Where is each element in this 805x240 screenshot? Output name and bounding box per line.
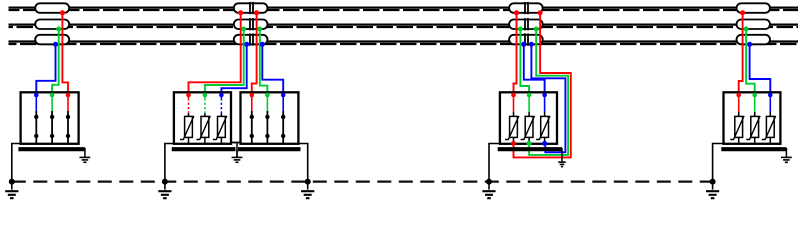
wire L1 red wrap to U4 bottom <box>514 13 571 158</box>
node tap L1 left cluster3 <box>514 10 519 15</box>
node tap L3 cluster4 <box>747 42 752 47</box>
ground mid cluster2 <box>232 150 243 162</box>
wire L1 red to U3 <box>252 13 257 95</box>
node tap L3 right cluster3 <box>529 42 534 47</box>
ground electrode 2 <box>158 182 171 199</box>
disconnect F4-L1 (pill) <box>737 3 771 13</box>
SPD U2 enclosure <box>174 92 231 144</box>
disconnect F3-L1 (double pill) <box>509 2 543 14</box>
bus L2 solid line <box>9 23 799 25</box>
wire L2 green wrap to U4 bottom <box>529 29 568 155</box>
wire U5 ground left <box>713 144 725 182</box>
U1 mounting bar <box>18 147 85 151</box>
varistor RV7 <box>730 93 744 144</box>
device U1 enclosure <box>21 92 79 144</box>
wire U4 ground right stub <box>561 148 563 162</box>
node tap L2 left cluster3 <box>518 27 523 32</box>
bus L3 dashed line <box>9 43 799 45</box>
node tap L2 right cluster2 <box>257 27 262 32</box>
wire L2 green to U5 <box>746 29 755 95</box>
wire L1 red to U2 <box>189 13 241 95</box>
node PE junction 2 <box>162 179 168 185</box>
U1 pole 1 <box>34 93 39 144</box>
node PE junction 4 <box>486 179 492 185</box>
wire U1 ground right stub <box>84 148 86 150</box>
node PE junction 3 <box>305 179 311 185</box>
wire L3 blue to U3 <box>262 44 283 95</box>
U5 mounting bar <box>721 147 786 151</box>
bus L2 dashed line <box>9 26 799 28</box>
disconnect F4-L3 (pill) <box>737 35 771 45</box>
varistor RV5 <box>521 93 535 146</box>
wire U2 ground left <box>165 144 175 182</box>
ground electrode 3 <box>301 182 314 199</box>
PE earth bus (dashed) <box>12 180 713 182</box>
wire U3 ground right <box>297 144 307 182</box>
node tap L1 cluster1 <box>60 10 65 15</box>
wire L1 red to U4 top <box>514 13 517 95</box>
varistor RV3 <box>213 93 227 144</box>
varistor RV1 <box>180 93 194 144</box>
ground electrode 5 <box>706 182 719 199</box>
disconnect F3-L2 (double pill) <box>509 18 543 30</box>
node tap L2 cluster4 <box>744 27 749 32</box>
disconnect F1-L3 (pill) <box>35 35 69 45</box>
U4 mounting bar <box>498 147 562 151</box>
wire L2 green to U4 top <box>520 29 529 95</box>
U3 pole 2 <box>265 93 270 144</box>
varistor RV2 <box>196 93 210 144</box>
node tap L3 left cluster3 <box>521 42 526 47</box>
wire L3 blue to U2 <box>221 44 246 95</box>
U1 pole 2 <box>50 93 55 144</box>
varistor RV9 <box>762 93 776 144</box>
U1 pole 3 <box>66 93 71 144</box>
wire L3 blue cluster1 <box>36 44 55 95</box>
SPD U4 enclosure <box>500 92 557 144</box>
ground U4 right <box>558 162 566 167</box>
wire L2 green to U2 <box>205 29 244 95</box>
node tap L3 cluster1 <box>53 42 58 47</box>
node tap L3 right cluster2 <box>260 42 265 47</box>
node tap L1 cluster4 <box>740 10 745 15</box>
bus L1 solid line <box>9 6 799 8</box>
node PE junction 1 <box>9 179 15 185</box>
wire U4 ground left <box>489 144 501 182</box>
node tap L2 left cluster2 <box>241 27 246 32</box>
wire L3 blue to U5 <box>750 44 771 95</box>
wire L1 red to U5 <box>739 13 743 95</box>
U3 pole 3 <box>281 93 286 144</box>
disconnect F3-L3 (double pill) <box>509 33 543 45</box>
wire L3 blue to U4 top <box>524 44 545 95</box>
wire L2 green to U3 <box>260 29 268 95</box>
ground electrode 1 <box>5 182 18 199</box>
device U3 enclosure <box>241 92 299 144</box>
bus L3 solid line <box>9 40 799 42</box>
wire L2 green cluster1 <box>52 29 59 95</box>
U3 mounting bar <box>238 147 301 151</box>
varistor RV8 <box>746 93 760 144</box>
disconnect F1-L1 (pill) <box>35 3 69 13</box>
node tap L1 right cluster2 <box>254 10 259 15</box>
node tap L2 cluster1 <box>56 27 61 32</box>
ground U1 right <box>80 149 91 163</box>
node tap L1 left cluster2 <box>238 10 243 15</box>
bus L1 dashed line <box>9 9 799 11</box>
node PE junction 5 <box>710 179 716 185</box>
disconnect F4-L2 (pill) <box>737 20 771 30</box>
U2 mounting bar <box>172 147 236 151</box>
disconnect F2-L2 (double pill) <box>234 18 268 30</box>
wire U5 ground right stub <box>785 148 787 150</box>
disconnect F2-L3 (double pill) <box>234 33 268 45</box>
node tap L3 left cluster2 <box>244 42 249 47</box>
wire L1 red cluster1 <box>62 13 68 95</box>
wire bridge U2-U3 <box>231 142 241 144</box>
SPD U5 enclosure <box>724 92 781 144</box>
varistor RV6 <box>536 93 550 146</box>
varistor RV4 <box>505 93 519 146</box>
ground U5 right <box>781 149 792 163</box>
U3 pole 1 <box>250 93 255 144</box>
disconnect F2-L1 (double pill) <box>234 2 268 14</box>
node tap L2 right cluster3 <box>534 27 539 32</box>
ground electrode 4 <box>482 182 495 199</box>
wire L3 blue wrap to U4 bottom <box>531 44 565 152</box>
node tap L1 right cluster3 <box>538 10 543 15</box>
wire stub mid ground <box>236 143 238 158</box>
disconnect F1-L2 (pill) <box>35 20 69 30</box>
wire U1 ground left <box>12 144 22 182</box>
